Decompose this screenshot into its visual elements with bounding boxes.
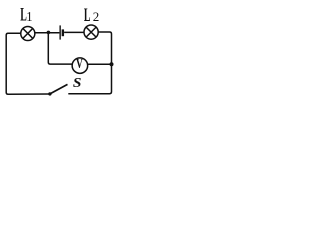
battery cell: short thick plate [62, 29, 64, 36]
svg-text:2: 2 [93, 9, 100, 24]
wire: battery to L2 left [64, 31, 84, 33]
switch S: blade [50, 84, 68, 94]
svg-text:S: S [73, 75, 82, 90]
node: junction dot on top wire [47, 31, 51, 35]
wire: top-left from L1 left, down left side, to switch pivot [6, 33, 49, 94]
svg-text:1: 1 [26, 8, 32, 24]
lamp L1 [21, 26, 35, 40]
wire: voltmeter right side to right wire junction [87, 63, 112, 65]
node: junction dot on right wire [110, 62, 114, 66]
wire: voltmeter branch, down from top junction then right to voltmeter [48, 32, 72, 64]
wire: L1 right to battery long plate (junction at 48.4) [35, 32, 60, 34]
switch S: pivot dot [48, 92, 51, 95]
voltmeter U1 [72, 58, 88, 74]
svg-text:V: V [76, 57, 83, 72]
svg-text:L: L [84, 6, 91, 26]
wire: L2 right, top-right corner, down right side, bottom-right corner to switch right contact [68, 32, 111, 94]
battery cell: long plate [59, 25, 61, 39]
lamp L2 [84, 25, 98, 39]
